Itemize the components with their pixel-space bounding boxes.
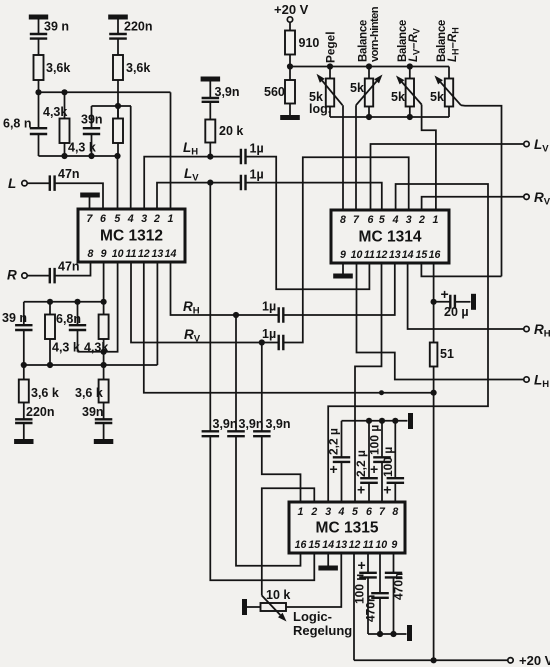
svg-text:5k: 5k: [430, 90, 444, 104]
wire: [23, 330, 25, 365]
wire: [381, 421, 383, 458]
svg-text:16: 16: [295, 539, 307, 551]
resistor 4,3k (fourth): [99, 315, 109, 340]
wire (pot2 wiper to MC1314 pin 7): [355, 105, 357, 210]
potentiometer wiper arrow (pot3): [402, 82, 422, 104]
wire row 3 node: [39, 155, 118, 157]
wire: [289, 67, 291, 81]
terminal Lv: [524, 141, 529, 146]
node (+20V vertical join): [431, 390, 437, 396]
svg-text:220n: 220n: [26, 405, 55, 419]
svg-text:5k: 5k: [350, 81, 364, 95]
ground G9 (20µ): [471, 294, 476, 310]
potentiometer wiper arrow (Pegel): [322, 81, 342, 106]
svg-text:2,2 µ: 2,2 µ: [354, 450, 368, 477]
node row3-c: [114, 153, 120, 159]
ground G3 (MC1312 pin 7): [80, 193, 100, 198]
wire (LV to MC1314 pin 5): [246, 183, 382, 210]
node: [407, 63, 413, 69]
wire: [448, 67, 450, 79]
svg-text:4: 4: [392, 214, 399, 226]
wire: [77, 330, 79, 352]
svg-text:10: 10: [375, 539, 387, 551]
wire: [103, 403, 105, 420]
node: [392, 418, 398, 424]
wire: [103, 339, 105, 365]
terminal +20V bottom: [508, 658, 513, 663]
wire (RH tap down to 3,9n): [235, 315, 237, 431]
svg-text:3,9n: 3,9n: [213, 417, 238, 431]
svg-text:20 k: 20 k: [219, 124, 243, 138]
resistor 51: [430, 343, 438, 367]
potentiometer body 3: [406, 79, 414, 107]
svg-text:3,6k: 3,6k: [126, 61, 150, 75]
svg-text:12: 12: [376, 249, 388, 261]
svg-text:910: 910: [299, 36, 320, 50]
svg-text:+: +: [358, 557, 366, 573]
capacitor 20µ electrolytic: [450, 295, 455, 309]
svg-text:+: +: [330, 461, 338, 477]
node pin10-row: [101, 349, 107, 355]
capacitor 1µ (LH): [241, 149, 246, 165]
svg-text:14: 14: [402, 249, 414, 261]
capacitor 1µ (RH): [279, 307, 284, 323]
node RV-tap: [259, 339, 265, 345]
potentiometer wiper arrow (pot2): [356, 81, 377, 105]
op-amp U2 MC 1314: [331, 210, 449, 263]
wire (3,9n-b to MC1315 pin 16): [236, 436, 301, 566]
potentiometer wiper arrow (pot4): [441, 82, 462, 105]
wire: [329, 67, 331, 79]
capacitor 3,9n (b): [227, 431, 245, 436]
wire (MC1314 pin 14 to RH out): [408, 263, 524, 329]
svg-text:3,6 k: 3,6 k: [75, 386, 103, 400]
svg-text:2: 2: [153, 213, 160, 225]
svg-text:+20 V: +20 V: [274, 2, 309, 17]
svg-text:15: 15: [308, 539, 321, 551]
wire: [103, 365, 105, 380]
svg-text:1µ: 1µ: [250, 142, 264, 156]
node: [379, 418, 385, 424]
wire: [38, 92, 40, 128]
resistor 910: [285, 31, 295, 55]
svg-text:12: 12: [138, 248, 150, 260]
wire: [368, 67, 370, 79]
wire: [77, 302, 79, 325]
svg-text:+20 V: +20 V: [519, 653, 550, 667]
wire (pot3 wiper to MC1314 pin 1): [422, 105, 436, 211]
wire (MC1312 pin 2 up): [157, 183, 241, 209]
ground G1 (above C 39n): [29, 15, 48, 20]
node: [327, 63, 333, 69]
node: [101, 299, 107, 305]
node: [390, 631, 396, 637]
svg-text:3,9n: 3,9n: [266, 417, 291, 431]
svg-text:4,3 k: 4,3 k: [68, 141, 96, 155]
svg-text:6,8n: 6,8n: [56, 312, 81, 326]
svg-text:+: +: [357, 482, 365, 498]
wire: [209, 102, 211, 120]
svg-text:MC 1315: MC 1315: [316, 520, 379, 537]
svg-text:11: 11: [126, 248, 137, 260]
wire: [409, 67, 411, 79]
wire (MC1314 pin 15 down): [421, 263, 501, 276]
terminal R: [22, 273, 27, 278]
svg-text:4: 4: [338, 506, 345, 518]
resistor 3,6k (col 2): [113, 55, 123, 80]
wire (MC1315 pin 14 to ground): [327, 553, 329, 566]
svg-text:13: 13: [335, 539, 347, 551]
ground G7 (below 560): [280, 115, 300, 120]
wire: [209, 143, 211, 157]
wire: [209, 82, 211, 99]
node row1-R4,3k: [61, 89, 67, 95]
potentiometer body 1: [326, 79, 334, 107]
terminal RH: [524, 326, 529, 331]
terminal Rv: [524, 194, 529, 199]
svg-text:1µ: 1µ: [262, 327, 276, 341]
svg-text:Balance: Balance: [358, 20, 370, 62]
svg-text:4,3k: 4,3k: [43, 105, 67, 119]
svg-text:2: 2: [418, 214, 425, 226]
svg-text:13: 13: [152, 248, 164, 260]
svg-text:+: +: [370, 461, 378, 477]
wire: [117, 106, 119, 119]
svg-text:220n: 220n: [124, 20, 153, 34]
capacitor 47n (L input): [50, 175, 55, 191]
svg-text:Pegel: Pegel: [324, 32, 338, 63]
capacitor 470n (pin10): [371, 593, 389, 598]
capacitor 3,9n (c): [253, 431, 271, 436]
node row2-col2: [115, 103, 121, 109]
svg-text:470n: 470n: [364, 595, 378, 622]
wire: [448, 107, 450, 118]
wire row 2 node: [92, 105, 132, 107]
ground G4 (above C 3,9n): [201, 77, 221, 82]
wire (row1 to MC1312 pin 1): [170, 92, 172, 209]
svg-text:10: 10: [351, 249, 363, 261]
wire (3,9n-c to MC1315 pin 1): [262, 436, 301, 502]
wire: [379, 553, 381, 593]
svg-text:1µ: 1µ: [262, 300, 276, 314]
wire: [394, 483, 396, 502]
wire: [341, 421, 343, 458]
svg-text:14: 14: [165, 248, 177, 260]
node: [431, 657, 437, 663]
svg-text:3,6 k: 3,6 k: [31, 386, 59, 400]
wire: [38, 134, 40, 156]
node row1-col1: [35, 89, 41, 95]
capacitor 3,9n (top): [202, 98, 220, 102]
svg-text:6: 6: [368, 214, 374, 226]
svg-text:1: 1: [298, 506, 304, 518]
capacitor 1µ (LV): [241, 175, 246, 191]
svg-text:3,9n: 3,9n: [239, 417, 264, 431]
capacitor 100µ (pin11): [359, 573, 377, 578]
resistor 560: [285, 80, 295, 104]
capacitor 39n (top-left col 1): [30, 34, 47, 39]
terminal +20V top: [287, 17, 292, 22]
wire pot bottom rail: [330, 116, 449, 118]
node (MC1314 pin 12 join): [379, 390, 384, 395]
resistor 10k potentiometer: [261, 603, 287, 611]
node: [47, 299, 53, 305]
svg-text:3,9n: 3,9n: [215, 85, 240, 99]
wire: [117, 39, 119, 55]
wire: [434, 301, 451, 303]
wire: [27, 275, 50, 277]
svg-text:100 µ: 100 µ: [368, 425, 382, 455]
wire: [103, 423, 105, 440]
node 910/560: [287, 63, 293, 69]
capacitor 39n (lower left): [15, 325, 32, 330]
svg-text:5k: 5k: [391, 90, 405, 104]
wire lower row 1: [24, 301, 104, 303]
node: [74, 299, 80, 305]
wire: [23, 403, 25, 420]
ground G6: [94, 439, 114, 444]
svg-text:+: +: [383, 482, 391, 498]
node LV-tap: [207, 180, 213, 186]
capacitor 1µ (RV): [279, 335, 284, 350]
potentiometer wiper arrow (10k): [262, 596, 281, 616]
wire (MC1312 pin 12 to +20V vertical): [144, 262, 434, 393]
svg-text:4: 4: [127, 213, 134, 225]
wire (3,9n-a to MC1315 pin 15): [210, 436, 314, 580]
wire (RV riser to MC1314 pin 3): [283, 157, 408, 342]
wire: [49, 339, 51, 365]
wire: [368, 421, 370, 478]
wire lower row 2 (bottom): [24, 364, 158, 366]
wire: [38, 20, 40, 35]
wire (51 to +20V rail): [433, 367, 435, 661]
svg-text:6: 6: [100, 213, 106, 225]
svg-text:+: +: [441, 286, 449, 302]
wire: [394, 421, 396, 478]
svg-text:560: 560: [264, 85, 285, 99]
wire (MC1314 pin 12 jog to MC1315 pin 5): [355, 263, 382, 502]
wire (RH to MC1314 pin 13): [283, 263, 395, 315]
svg-text:log.: log.: [309, 102, 331, 116]
ground G12 (10k): [242, 599, 247, 615]
svg-text:10 k: 10 k: [266, 588, 290, 602]
capacitor 39n (third): [95, 419, 113, 423]
svg-text:14: 14: [322, 539, 334, 551]
wire (MC1314 pin 10 to LH out): [357, 263, 524, 380]
svg-text:Logic-: Logic-: [293, 609, 332, 624]
op-amp U3 MC 1315: [289, 502, 405, 553]
node RH-tap: [233, 312, 239, 318]
svg-text:11: 11: [363, 539, 374, 551]
wire: [367, 553, 369, 573]
ground G8 (MC1314 pin 9): [333, 274, 353, 279]
svg-text:20 µ: 20 µ: [444, 305, 469, 319]
resistor 4,3k (second): [113, 119, 123, 144]
svg-text:10: 10: [112, 248, 124, 260]
wire: [289, 104, 291, 116]
wire (MC1312 pin 10 down): [78, 262, 118, 352]
wire: [91, 106, 93, 128]
wire MC1315 bypass rail: [342, 420, 408, 422]
resistor 3,6k (fourth): [99, 380, 109, 403]
capacitor 220n (lower): [15, 419, 32, 423]
wire caps bottom rail: [368, 633, 407, 635]
wire (MC1314 pin 9 to ground): [342, 263, 344, 274]
potentiometer body 4: [445, 79, 453, 107]
capacitor 39n (second): [83, 128, 100, 134]
wire (pot4 wiper to MC1314 pin 15): [461, 105, 502, 276]
terminal L: [22, 181, 27, 186]
wire: [49, 302, 51, 315]
svg-text:R: R: [7, 268, 17, 283]
capacitor 47n (R input): [50, 268, 55, 284]
svg-text:1µ: 1µ: [250, 168, 264, 182]
ground G5: [14, 439, 33, 444]
node LH-20k: [207, 154, 213, 160]
wire: [23, 302, 25, 325]
svg-text:9: 9: [340, 249, 346, 261]
node: [47, 362, 53, 368]
node: [101, 362, 107, 368]
wire (MC1315 pin 2 to 10k wiper): [262, 488, 315, 595]
svg-text:L: L: [8, 176, 16, 191]
wire (R to MC1312 pin 8): [55, 262, 91, 276]
capacitor 220n (top-left col 2): [109, 34, 127, 39]
svg-text:51: 51: [440, 347, 454, 361]
wire (MC1312 pin 11 down): [131, 262, 279, 343]
svg-text:8: 8: [88, 248, 94, 260]
wire: [210, 156, 241, 158]
ground G13 (caps bottom): [407, 625, 412, 641]
svg-text:39 n: 39 n: [2, 311, 27, 325]
svg-text:13: 13: [389, 249, 401, 261]
wire: [117, 143, 119, 156]
wire (MC1312 pin 14 down): [171, 262, 279, 315]
wire: [393, 553, 395, 573]
svg-text:3: 3: [325, 506, 331, 518]
wire: [379, 598, 381, 634]
wire: [38, 80, 40, 92]
wire: [103, 302, 105, 315]
svg-text:11: 11: [364, 249, 375, 261]
wire: [341, 462, 343, 502]
wire (row3 to MC1312 pin 5): [117, 156, 119, 209]
wire: [289, 22, 291, 30]
capacitor 470n (pin9): [385, 573, 402, 578]
svg-text:39n: 39n: [81, 113, 103, 127]
wire: [64, 143, 66, 156]
svg-text:39 n: 39 n: [44, 20, 69, 34]
wire: [64, 92, 66, 118]
wire: [353, 553, 355, 660]
wire (MC1314 pin 4 wrap to MC1315 pin 3): [328, 184, 488, 502]
node 20µ tap: [431, 299, 437, 305]
wire: [27, 182, 50, 184]
wire: [289, 55, 291, 67]
wire: [247, 606, 261, 608]
svg-text:8: 8: [340, 214, 346, 226]
node: [366, 418, 372, 424]
wire (Pegel wiper to MC1314 pin 8): [342, 105, 344, 210]
svg-text:47n: 47n: [58, 260, 80, 274]
node row3-b: [88, 153, 94, 159]
svg-text:47n: 47n: [58, 167, 80, 181]
wire (MC1312 pin 3 up): [144, 157, 210, 209]
wire (MC1314 pin 16 down): [433, 263, 435, 343]
svg-text:4,3 k: 4,3 k: [52, 341, 80, 355]
resistor 4,3k (first): [60, 119, 70, 144]
svg-text:100 µ: 100 µ: [381, 447, 395, 477]
wire +20V bottom rail: [354, 659, 508, 661]
wire (L to MC1312 pin 6): [55, 183, 103, 209]
wire: [91, 134, 93, 156]
node: [366, 114, 372, 120]
wire (RV tap down to 3,9n): [261, 343, 263, 432]
svg-text:9: 9: [391, 539, 397, 551]
svg-text:Regelung: Regelung: [293, 623, 352, 638]
node row3-a: [61, 153, 67, 159]
node: [21, 362, 27, 368]
capacitor 6,8n (first): [30, 128, 47, 134]
svg-text:2,2 µ: 2,2 µ: [327, 428, 341, 455]
svg-text:1: 1: [168, 213, 174, 225]
svg-text:3: 3: [141, 213, 147, 225]
node: [407, 114, 413, 120]
wire pot top rail: [290, 66, 449, 68]
capacitor 2,2µ (pin6): [360, 478, 378, 483]
wire row 1 node: [39, 91, 171, 93]
wire (10k to MC1315 pin 13): [286, 553, 341, 607]
svg-text:15: 15: [416, 249, 429, 261]
wire (col2 down to row2): [117, 80, 119, 119]
svg-text:6,8 n: 6,8 n: [3, 117, 32, 131]
resistor 3,6k (col 1): [34, 55, 44, 80]
ground G2 (above C 220n): [108, 15, 128, 20]
wire: [23, 423, 25, 440]
wire: [368, 483, 370, 502]
wire: [455, 301, 471, 303]
resistor 20k: [205, 120, 215, 143]
svg-text:MC 1312: MC 1312: [100, 228, 163, 245]
node: [377, 631, 383, 637]
wire (MC1314 pin 2 to Rv out): [422, 197, 524, 210]
svg-text:12: 12: [349, 539, 361, 551]
node: [366, 63, 372, 69]
wire: [117, 20, 119, 35]
wire: [38, 39, 40, 55]
capacitor 6,8n (second): [69, 325, 86, 330]
wire: [89, 198, 91, 210]
capacitor 2,2µ (pin4): [333, 457, 350, 462]
capacitor 100µ (pin8): [387, 478, 405, 483]
wire: [409, 107, 411, 118]
ground G11 (MC1315 pin 14): [318, 566, 338, 571]
wire (LV tap down to 3,9n): [209, 183, 211, 432]
wire: [393, 577, 395, 634]
resistor 4,3k (third): [45, 315, 55, 340]
wire: [23, 365, 25, 380]
wire: [367, 577, 369, 634]
svg-text:3,6k: 3,6k: [46, 61, 70, 75]
capacitor 3,9n (a): [202, 431, 220, 436]
svg-text:8: 8: [392, 506, 398, 518]
svg-text:vorn-hinten: vorn-hinten: [369, 6, 381, 62]
resistor 3,6k (third): [19, 380, 29, 403]
wire: [381, 462, 383, 502]
svg-text:3: 3: [406, 214, 412, 226]
svg-text:1: 1: [433, 214, 439, 226]
svg-text:39n: 39n: [82, 405, 104, 419]
